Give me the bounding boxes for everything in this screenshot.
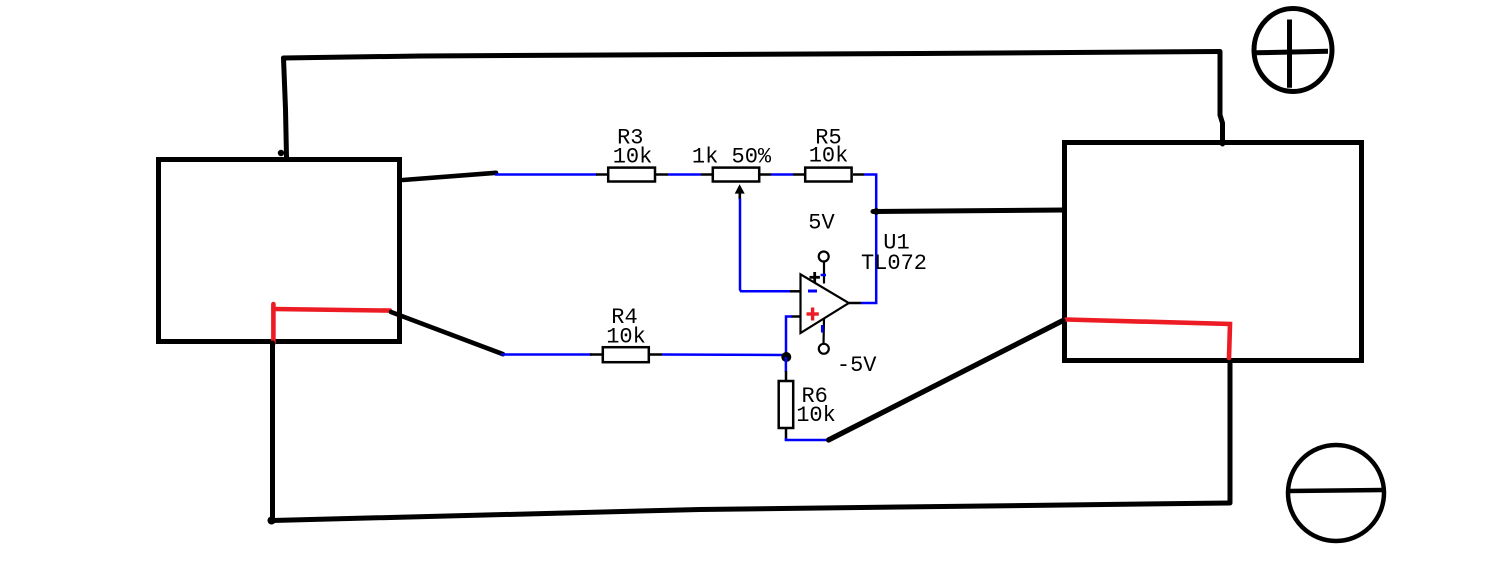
potentiometer 1k 50% [692, 145, 772, 200]
svg-text:10k: 10k [606, 325, 646, 350]
V+ plus mark [810, 272, 820, 283]
box right module [1065, 143, 1362, 361]
svg-text:10k: 10k [809, 144, 849, 169]
pin V- [822, 319, 825, 345]
svg-text:5V: 5V [808, 211, 835, 236]
wire diagonal left box to R4 [391, 312, 503, 354]
resistor R6 10k [779, 371, 836, 439]
battery positive terminal symbol [1254, 9, 1332, 92]
wire blue wiper down and to op-amp inverting input [740, 199, 790, 292]
wire blue junction up to non-inverting input [786, 317, 792, 356]
wire top horizontal [284, 52, 1220, 59]
svg-text:10k: 10k [613, 145, 653, 170]
node junction at R4/R6 [781, 352, 791, 362]
svg-text:1k 50%: 1k 50% [692, 145, 772, 170]
wire diagonal R6 to right box red mark [829, 321, 1064, 441]
node at left box top entry [278, 150, 284, 156]
red probe mark inside left box [271, 304, 276, 344]
red probe mark inside right box [1066, 320, 1230, 359]
wire blue R3 to potentiometer [668, 173, 701, 176]
wire blue to R3 [495, 173, 597, 176]
wire diagonal left box to R3 [403, 173, 496, 180]
resistor R5 10k [793, 125, 864, 181]
wire bottom horizontal net [273, 503, 1230, 521]
wire blue junction down to R6 [785, 357, 788, 372]
resistor R4 10k [590, 305, 662, 362]
wire blue R6 bottom corner [786, 438, 829, 440]
op-amp U1 TL072 [790, 211, 927, 379]
wire right box bottom vertical [1228, 363, 1233, 503]
svg-text:TL072: TL072 [861, 251, 927, 276]
svg-text:10k: 10k [796, 403, 836, 428]
resistor R3 10k [596, 125, 668, 181]
wire right riser into right box top [1220, 52, 1223, 145]
wire blue pot to R5 [771, 173, 793, 176]
wire left box bottom vertical [270, 343, 275, 521]
node at bottom wire left end [268, 517, 276, 525]
wire left box top riser [284, 58, 287, 157]
wire thick output net to right box [873, 210, 1064, 212]
inverting input mark [808, 290, 817, 293]
node junction output net [873, 208, 880, 215]
blue stub artifact top [821, 274, 826, 277]
wire blue to R4 [501, 353, 592, 356]
non-inverting input mark [807, 308, 819, 321]
wire blue R5 right and down to op-amp output [861, 175, 876, 304]
box left module [159, 160, 400, 342]
blue stub artifact bottom [821, 325, 824, 333]
wire blue R4 to junction [662, 353, 783, 356]
pin V+ [823, 261, 825, 284]
svg-text:-5V: -5V [837, 353, 877, 378]
battery negative terminal symbol [1288, 445, 1384, 541]
